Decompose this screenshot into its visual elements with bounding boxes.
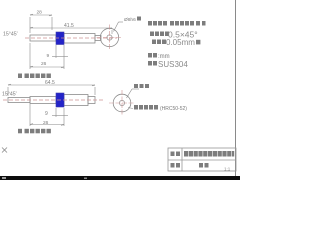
svg-text:9: 9 <box>45 111 48 117</box>
svg-text:9: 9 <box>47 53 50 59</box>
svg-text:28: 28 <box>37 10 43 16</box>
svg-text:41.5: 41.5 <box>64 23 74 29</box>
svg-text:Ø8h6: Ø8h6 <box>124 17 136 23</box>
svg-text:15°45': 15°45' <box>3 32 18 38</box>
svg-text:1:1: 1:1 <box>224 167 231 172</box>
svg-text:26: 26 <box>43 120 49 126</box>
svg-text:0.05mm: 0.05mm <box>166 38 195 47</box>
svg-text:64.5: 64.5 <box>45 80 55 86</box>
svg-text:(HRC50-52): (HRC50-52) <box>160 106 187 112</box>
svg-text:SUS304: SUS304 <box>158 60 188 69</box>
svg-text:15°45': 15°45' <box>2 91 17 97</box>
svg-text:26: 26 <box>41 61 47 67</box>
